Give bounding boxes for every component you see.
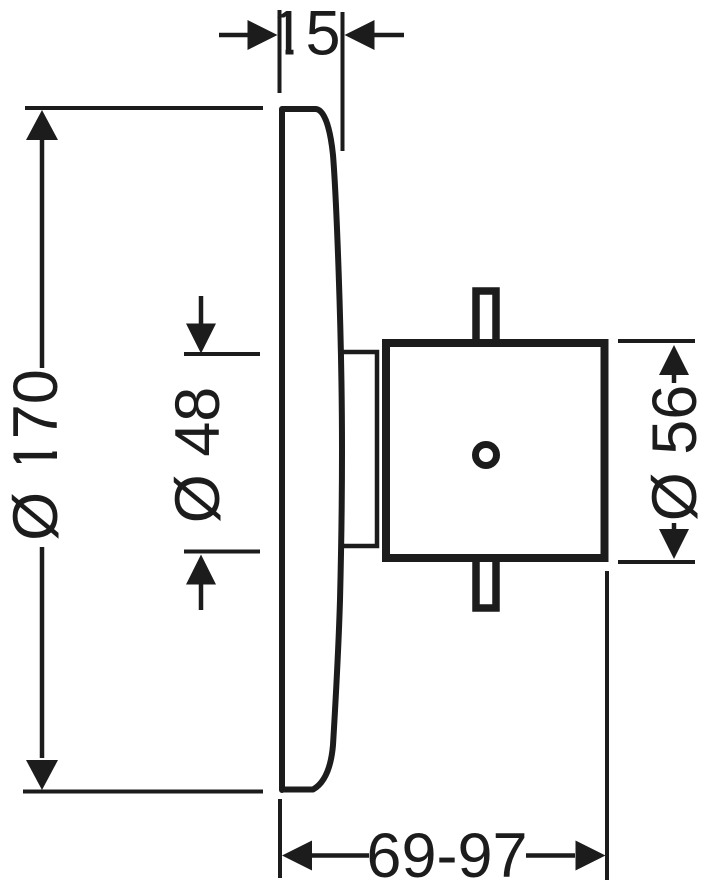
dimension 69-97: left dim line segment: [310, 853, 369, 858]
dimension 15: label digit 1: [270, 0, 305, 69]
top tab: [476, 291, 496, 342]
dimension 15: label digit 5: [306, 0, 341, 69]
dimension 15: right arrowhead: [345, 20, 375, 50]
dimension 69-97: label text: [366, 821, 527, 891]
dimension 15: left tail line: [219, 33, 250, 38]
dimension D48: top arrowhead (down): [186, 324, 216, 354]
dimension 15: left arrowhead: [248, 20, 278, 50]
dimension D170: bottom extension line: [23, 790, 263, 794]
dimension 15: right tail line: [373, 33, 404, 38]
center screw circle: [476, 445, 497, 466]
dimension D56: bottom extension line: [618, 560, 695, 564]
dimension D56: label text: [640, 385, 710, 522]
dimension D170: top arrowhead: [26, 110, 58, 140]
dimension D56: top arrow tail: [672, 372, 677, 383]
dimension 69-97: right dim line segment: [526, 853, 575, 858]
dimension D170: lower dim line segment: [40, 547, 45, 758]
dimension 69-97: right extension line: [605, 571, 609, 880]
dimension 69-97: left extension line: [278, 799, 282, 878]
dimension D48: top tick line: [184, 352, 260, 356]
svg-text:69-97: 69-97: [366, 821, 527, 891]
dimension D56: top arrowhead (up): [659, 345, 689, 375]
dimension D170: top extension line: [25, 106, 263, 110]
dimension D170: label text: [1, 369, 71, 541]
dimension D48: label text: [163, 387, 233, 524]
white patch over digit-1 foot serif: [272, 18, 304, 57]
dimension D56: bottom arrowhead (down): [659, 529, 689, 559]
dimension D48: top arrow tail: [199, 296, 204, 327]
dimension D170: upper dim line segment: [40, 138, 45, 368]
dimension 15: right extension line: [341, 12, 345, 151]
escutcheon plate profile (side view): [282, 109, 342, 790]
svg-text:Ø 56: Ø 56: [640, 385, 710, 522]
dimension D48: bottom tick line: [184, 550, 260, 554]
dimension D170: bottom arrowhead: [26, 760, 58, 790]
white patch over rotated digit-1 foot serif: [12, 441, 60, 471]
svg-text:Ø 48: Ø 48: [163, 387, 233, 524]
dimension 69-97: right arrowhead: [576, 841, 606, 871]
dimension 15: left extension line: [278, 10, 282, 93]
dimension D48: bottom arrowhead (up): [186, 555, 216, 585]
dimension D56: bottom arrow tail: [672, 523, 677, 534]
valve body square box: [386, 343, 605, 558]
svg-text:5: 5: [306, 0, 341, 69]
dimension 69-97: left arrowhead: [282, 841, 312, 871]
dimension D48: bottom arrow tail: [199, 581, 204, 610]
bottom tab: [476, 560, 496, 608]
sleeve between plate and valve body: [341, 352, 377, 546]
dimension D56: top extension line: [618, 339, 695, 343]
svg-text:Ø 170: Ø 170: [1, 369, 71, 541]
